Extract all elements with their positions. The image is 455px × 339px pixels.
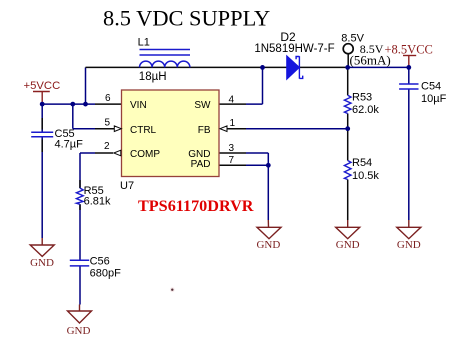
svg-text:8.5 VDC SUPPLY: 8.5 VDC SUPPLY bbox=[103, 6, 270, 31]
svg-text:GND: GND bbox=[30, 257, 54, 269]
svg-text:5: 5 bbox=[104, 117, 110, 128]
svg-text:+5VCC: +5VCC bbox=[24, 80, 61, 92]
svg-text:PAD: PAD bbox=[191, 159, 211, 170]
svg-text:CTRL: CTRL bbox=[130, 125, 157, 136]
svg-text:6.81k: 6.81k bbox=[84, 196, 111, 208]
svg-text:GND: GND bbox=[336, 239, 360, 251]
svg-text:1: 1 bbox=[230, 118, 236, 129]
svg-text:R54: R54 bbox=[352, 157, 372, 169]
svg-text:2: 2 bbox=[104, 141, 110, 152]
svg-text:(56mA): (56mA) bbox=[350, 52, 391, 67]
svg-text:SW: SW bbox=[194, 100, 211, 111]
svg-text:1N5819HW-7-F: 1N5819HW-7-F bbox=[254, 43, 334, 55]
svg-text:10µF: 10µF bbox=[421, 93, 447, 105]
svg-text:62.0k: 62.0k bbox=[352, 104, 379, 116]
svg-text:10.5k: 10.5k bbox=[352, 170, 379, 182]
svg-text:L1: L1 bbox=[138, 37, 150, 49]
svg-text:GND: GND bbox=[67, 325, 91, 337]
svg-text:GND: GND bbox=[256, 239, 280, 251]
svg-text:18µH: 18µH bbox=[139, 71, 167, 83]
svg-text:FB: FB bbox=[198, 125, 211, 136]
svg-text:4: 4 bbox=[229, 94, 235, 105]
svg-text:C56: C56 bbox=[90, 256, 110, 268]
svg-text:4.7µF: 4.7µF bbox=[55, 139, 84, 151]
svg-text:680pF: 680pF bbox=[90, 268, 121, 280]
svg-text:R53: R53 bbox=[352, 92, 372, 104]
svg-text:GND: GND bbox=[397, 239, 421, 251]
svg-text:D2: D2 bbox=[280, 30, 296, 44]
svg-text:VIN: VIN bbox=[130, 100, 147, 111]
svg-text:COMP: COMP bbox=[130, 149, 160, 160]
svg-text:7: 7 bbox=[229, 155, 235, 166]
svg-text:TPS61170DRVR: TPS61170DRVR bbox=[138, 197, 254, 215]
svg-text:+8.5VCC: +8.5VCC bbox=[385, 43, 433, 57]
svg-text:C54: C54 bbox=[421, 81, 441, 93]
svg-text:6: 6 bbox=[105, 93, 111, 104]
svg-text:U7: U7 bbox=[120, 180, 134, 192]
svg-text:3: 3 bbox=[229, 143, 235, 154]
